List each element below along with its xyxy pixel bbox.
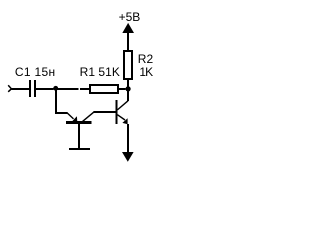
output arrow down [122,152,134,162]
wire: node A down (Q1 emitter path vertical) [55,90,57,113]
svg-text:C1 15н: C1 15н [15,65,55,79]
svg-text:+5В: +5В [119,10,141,24]
wire: toward R1 (segment 2 after small break) [80,88,89,90]
svg-text:R2: R2 [138,52,154,66]
input terminal (chevron) [8,85,11,92]
capacitor C1 plate right [34,80,36,97]
transistor Q2 base bar [116,100,118,124]
svg-text:R1 51K: R1 51K [80,65,120,79]
capacitor C1 plate left [29,80,31,97]
wire: power arrow to R2 [127,33,129,50]
node A (junction dot) [53,86,58,91]
resistor R2 body [124,51,132,79]
transistor Q2 emitter diagonal [117,115,125,120]
power arrow up [122,23,134,33]
resistor R1 body [90,85,118,93]
transistor Q1 emitter diagonal [67,113,74,119]
node B (junction dot) [126,86,131,91]
transistor Q1 base bar [66,121,92,124]
wire: node A toward R1 (segment 1) [58,88,79,90]
transistor Q1 emitter arrowhead [72,116,78,122]
wire: Q1 collector to Q2 base [94,111,116,113]
svg-text:1K: 1K [139,65,153,79]
wire: R2 to node B [127,80,129,89]
wire: input to C1 [11,88,29,90]
wire: C1 to node A [36,88,54,90]
wire: Q1 base lead down [78,124,80,148]
wire: Q1 emitter path horizontal [55,112,68,114]
ground bar [69,148,90,150]
transistor Q2 emitter arrowhead [122,118,127,124]
wire: R1 to node B [119,88,126,90]
wire: Q2 emitter down [127,124,129,152]
wire: Q2 collector up to node B [127,91,129,101]
transistor Q2 collector diagonal [117,101,128,110]
transistor Q1 collector diagonal [82,112,94,122]
